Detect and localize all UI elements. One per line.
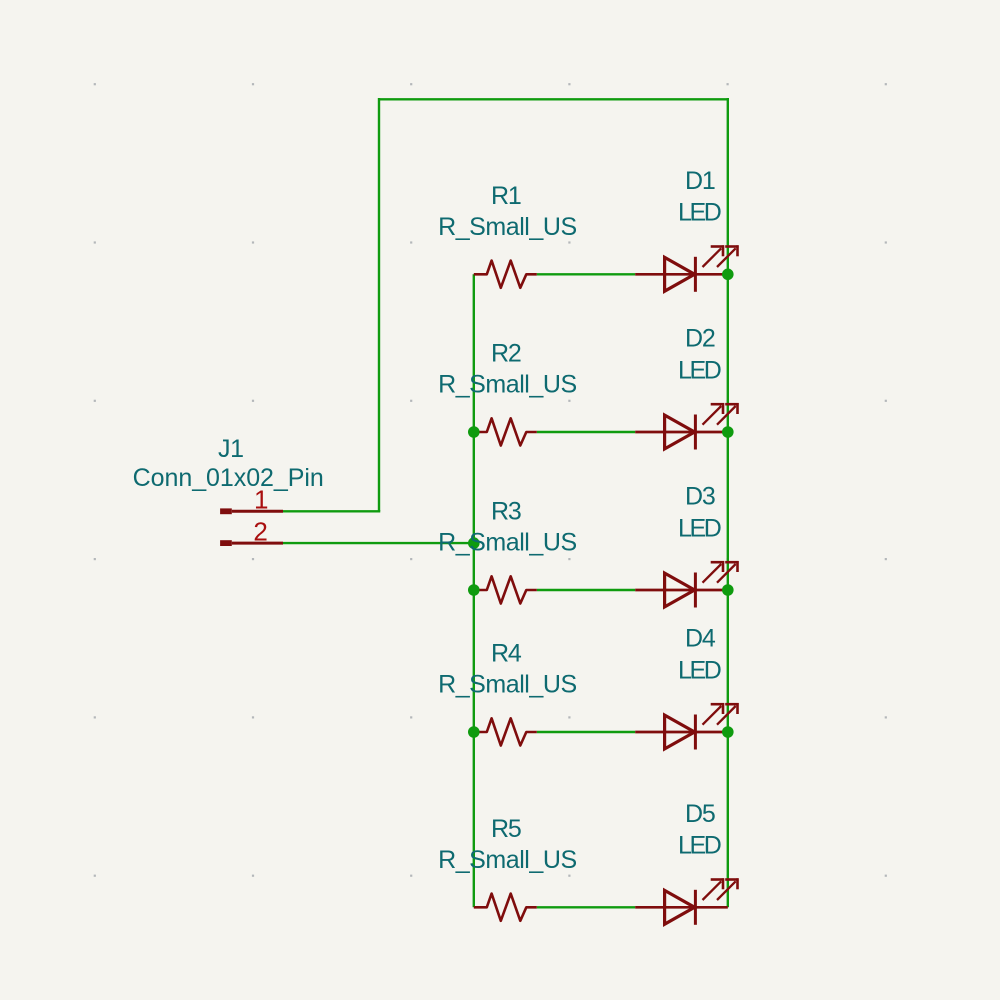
svg-text:2: 2 [253, 516, 267, 546]
resistor R3 [474, 576, 537, 603]
svg-text:R5: R5 [491, 815, 521, 843]
resistor R2 [474, 418, 537, 445]
svg-text:R_Small_US: R_Small_US [438, 371, 577, 399]
svg-text:D1: D1 [685, 167, 715, 195]
junction at (728,274) [722, 269, 734, 281]
LED D1 [635, 245, 738, 291]
svg-text:D2: D2 [685, 325, 715, 353]
wire resistor R5 to LED D5 [537, 906, 635, 908]
LED D4 [635, 703, 738, 750]
wire right vertical bus [727, 98, 729, 907]
svg-text:LED: LED [678, 199, 721, 227]
svg-text:D5: D5 [685, 800, 715, 828]
junction at (474,543) [468, 537, 480, 549]
LED D3 [635, 561, 738, 608]
wire pin 2 to middle vertical [283, 542, 474, 544]
svg-text:R4: R4 [491, 640, 522, 668]
resistor R5 [474, 894, 537, 921]
LED D5 [635, 878, 738, 925]
LED D2 [635, 403, 738, 450]
connector J1 pin 2 [220, 540, 283, 546]
wire top bus [379, 98, 728, 100]
svg-text:LED: LED [678, 514, 721, 542]
junction at (728,590) [722, 584, 734, 596]
wire resistor R1 to LED D1 [537, 273, 635, 275]
junction at (728,732) [722, 726, 734, 738]
svg-text:R_Small_US: R_Small_US [438, 529, 577, 557]
svg-text:J1: J1 [218, 435, 244, 463]
junction at (728,432) [722, 426, 734, 438]
resistor R4 [474, 718, 537, 745]
wire resistor R2 to LED D2 [537, 431, 635, 433]
svg-text:R1: R1 [491, 182, 521, 210]
svg-text:LED: LED [678, 656, 721, 684]
svg-text:D3: D3 [685, 483, 715, 511]
wire left vertical from top bus to pin 1 [378, 98, 380, 511]
svg-text:D4: D4 [685, 625, 716, 653]
junction at (474,432) [468, 426, 480, 438]
connector J1 pin 1 [220, 508, 283, 514]
junction at (474,590) [468, 584, 480, 596]
svg-text:R2: R2 [491, 340, 521, 368]
resistor R1 [474, 261, 537, 288]
svg-text:R_Small_US: R_Small_US [438, 213, 577, 241]
svg-text:LED: LED [678, 356, 721, 384]
svg-text:R_Small_US: R_Small_US [438, 846, 577, 874]
wire pin 1 to left vertical [283, 510, 380, 512]
svg-text:R_Small_US: R_Small_US [438, 671, 577, 699]
wire resistor R3 to LED D3 [537, 589, 635, 591]
svg-text:LED: LED [678, 832, 721, 860]
wire middle vertical bus [473, 274, 475, 907]
svg-text:R3: R3 [491, 498, 521, 526]
junction at (474,732) [468, 726, 480, 738]
svg-text:Conn_01x02_Pin: Conn_01x02_Pin [133, 464, 324, 492]
wire resistor R4 to LED D4 [537, 731, 635, 733]
